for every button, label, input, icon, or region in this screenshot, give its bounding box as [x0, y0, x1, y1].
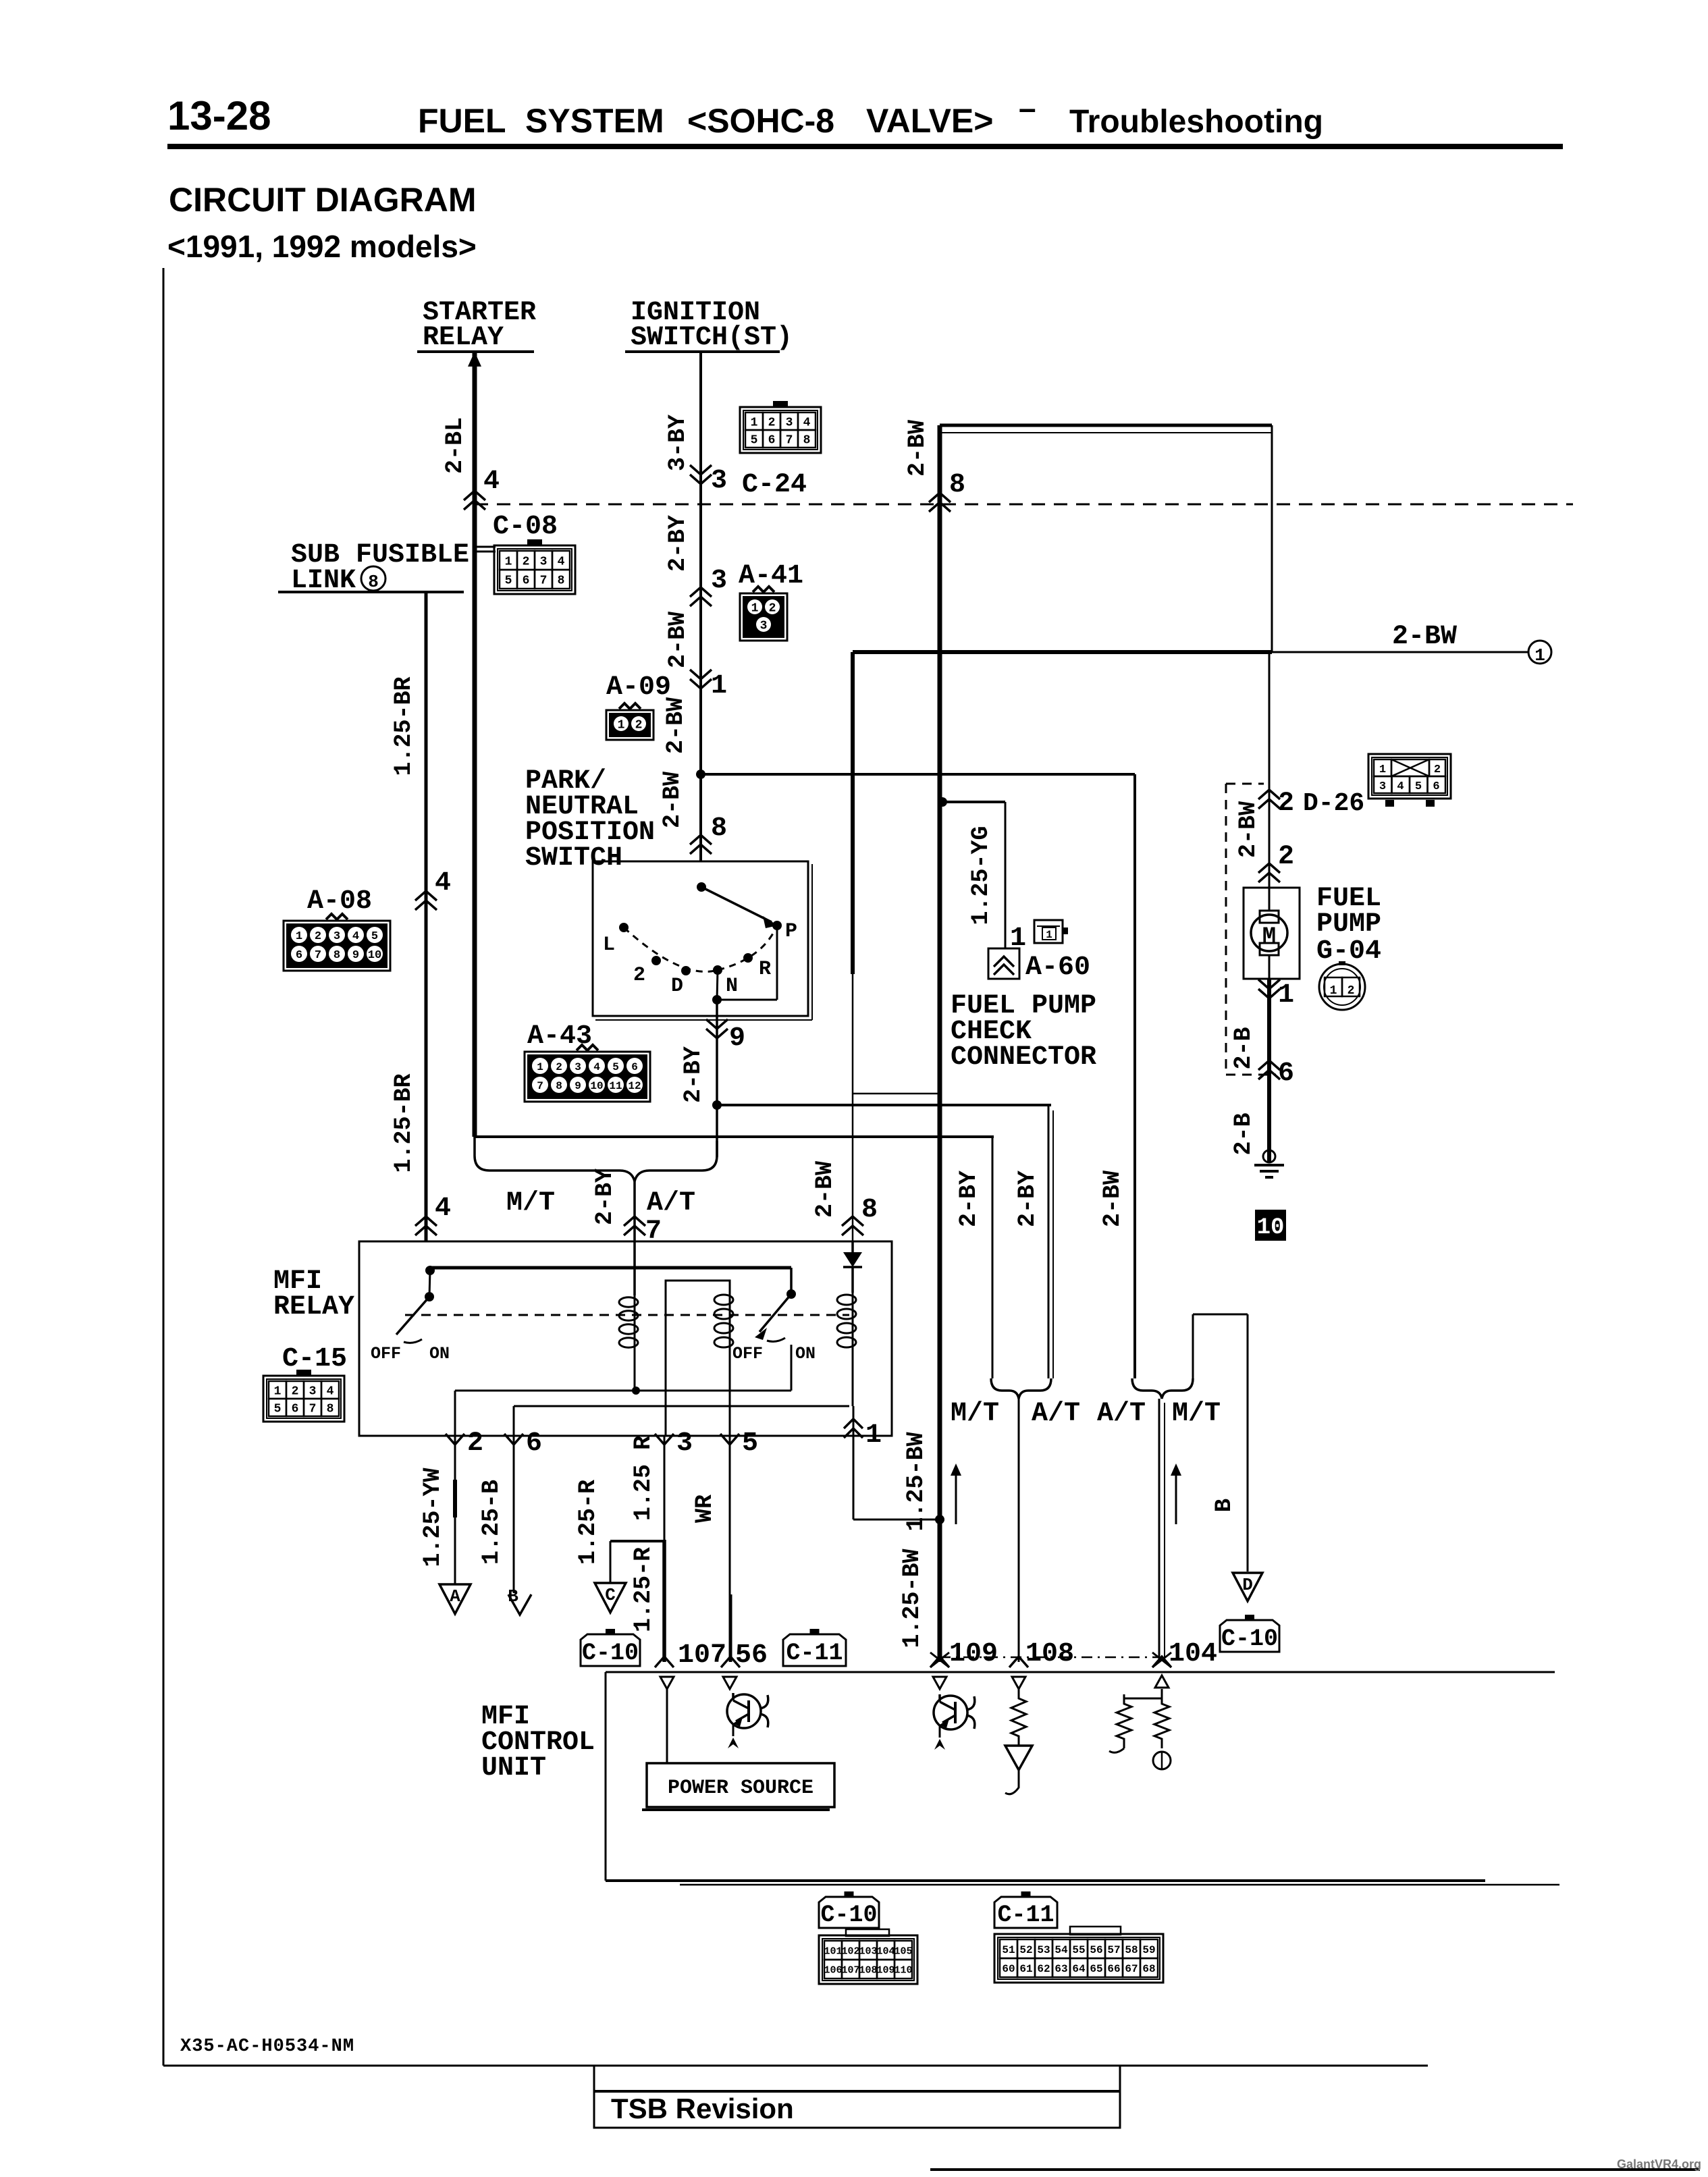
pin 3 chevron at C-24 [690, 475, 712, 484]
contact R [743, 953, 753, 963]
grid location 10 black box [1255, 1210, 1286, 1241]
MFI control unit box top [606, 1671, 1555, 1673]
svg-text:52: 52 [1019, 1944, 1032, 1956]
junction N output [712, 1100, 722, 1110]
connector G-04 [1319, 964, 1365, 1010]
svg-text:108: 108 [1025, 1639, 1074, 1669]
pin 107 chevron [655, 1657, 674, 1667]
svg-text:1.25-BW: 1.25-BW [899, 1549, 926, 1648]
contact D [681, 966, 691, 975]
svg-text:1: 1 [618, 718, 625, 732]
svg-text:5: 5 [1415, 780, 1422, 793]
svg-text:54: 54 [1055, 1944, 1068, 1956]
circle plus under 104 [1153, 1752, 1171, 1769]
pin 9 chevron [706, 1029, 728, 1038]
header rule [167, 144, 1563, 149]
svg-text:6: 6 [526, 1428, 542, 1459]
svg-text:109: 109 [949, 1639, 998, 1669]
svg-text:4: 4 [435, 1193, 451, 1224]
pin 4 chevron at C-08 boundary [464, 491, 485, 500]
pin 3 chevron at A-41 [690, 587, 712, 597]
svg-text:1.25 R: 1.25 R [630, 1436, 657, 1521]
connector C-11 bottom label box [994, 1897, 1057, 1928]
brace M/T A/T upper [475, 1137, 717, 1181]
svg-text:SYSTEM: SYSTEM [525, 102, 664, 140]
svg-text:P: P [785, 920, 797, 943]
contact 2 [651, 956, 661, 965]
svg-text:5: 5 [742, 1428, 758, 1459]
wire 1.25-BR sub fusible link to MFI relay [425, 592, 428, 1241]
svg-text:7: 7 [540, 574, 548, 587]
svg-text:2-BW: 2-BW [1099, 1171, 1126, 1227]
svg-text:1.25-B: 1.25-B [478, 1480, 505, 1565]
relay coil 1 [633, 1241, 636, 1295]
pin 108 chevron [1009, 1657, 1028, 1667]
relay coil1 to pin2 wire [455, 1390, 635, 1392]
wire P to output [776, 927, 778, 1000]
connector A-09 [606, 710, 653, 740]
MFI control unit box bottom [606, 1879, 1485, 1882]
svg-text:3: 3 [333, 930, 340, 943]
svg-text:5: 5 [505, 574, 512, 587]
resistor R-left under 104 [1117, 1694, 1131, 1748]
svg-text:–: – [1019, 90, 1036, 126]
svg-text:106: 106 [824, 1964, 842, 1976]
svg-text:FUEL: FUEL [418, 102, 506, 140]
pin 2 chevron D-26 [1258, 790, 1280, 799]
svg-text:1: 1 [865, 1420, 882, 1451]
pin 2 chevron fuel pump [1258, 863, 1280, 873]
bottom right rule [930, 2168, 1700, 2171]
svg-text:1: 1 [1534, 645, 1545, 666]
svg-text:Troubleshooting: Troubleshooting [1069, 104, 1323, 140]
connector C-11 bottom [994, 1934, 1163, 1983]
wire 2-BL to M/T brace horizontal [475, 1135, 994, 1138]
svg-text:67: 67 [1125, 1963, 1138, 1975]
wire output continues to M/T brace [716, 1105, 718, 1157]
svg-text:2-BW: 2-BW [904, 420, 931, 477]
svg-text:7: 7 [309, 1402, 317, 1416]
pin 7 chevron [624, 1216, 645, 1226]
link 1262 to 1392 [853, 1093, 940, 1095]
svg-text:3: 3 [575, 1061, 581, 1073]
svg-text:2: 2 [1278, 788, 1294, 819]
svg-text:4: 4 [593, 1061, 600, 1073]
wire WR pin5 down [729, 1436, 731, 1594]
svg-text:RELAY: RELAY [273, 1292, 354, 1322]
dashed box fuel pump [1225, 784, 1227, 1075]
svg-text:4: 4 [803, 416, 811, 429]
connector D-26 [1368, 754, 1451, 799]
pin triangle 56 [723, 1677, 737, 1689]
svg-text:66: 66 [1107, 1963, 1120, 1975]
svg-text:A-08: A-08 [307, 886, 372, 917]
svg-text:105: 105 [894, 1945, 912, 1957]
wire 1.25-R branch to terminal C [610, 1540, 664, 1542]
svg-text:107: 107 [678, 1640, 726, 1671]
svg-text:61: 61 [1019, 1963, 1032, 1975]
svg-text:A-09: A-09 [606, 672, 671, 703]
svg-text:C-10: C-10 [582, 1640, 639, 1667]
svg-text:6: 6 [1278, 1058, 1294, 1089]
pin 4 chevron at MFI relay [415, 1216, 437, 1226]
svg-text:C-10: C-10 [1221, 1625, 1278, 1652]
relay pin 5 [720, 1434, 739, 1445]
svg-text:2-BL: 2-BL [442, 417, 469, 474]
svg-text:1: 1 [274, 1385, 282, 1398]
pin 8 chevron top [929, 493, 951, 502]
svg-text:A-60: A-60 [1025, 952, 1090, 983]
pin triangle 108 [1012, 1677, 1025, 1689]
svg-text:6: 6 [523, 574, 530, 587]
svg-text:11: 11 [609, 1080, 622, 1092]
svg-text:D: D [1242, 1575, 1253, 1595]
connector C-10 bottom [819, 1935, 917, 1984]
fuel pump motor box [1244, 888, 1300, 979]
svg-text:1.25-YG: 1.25-YG [967, 826, 994, 925]
svg-text:M/T: M/T [951, 1399, 999, 1429]
relay diode pin8 [851, 1241, 854, 1252]
svg-text:1: 1 [1046, 929, 1052, 941]
svg-text:2-B: 2-B [1230, 1112, 1257, 1155]
svg-text:OFF: OFF [371, 1344, 401, 1364]
svg-text:3: 3 [711, 566, 727, 596]
svg-text:7: 7 [786, 433, 793, 447]
svg-text:2: 2 [1347, 984, 1355, 998]
svg-text:2: 2 [315, 930, 321, 943]
fuel pump motor [1269, 888, 1271, 911]
wire 104 down double [1158, 1399, 1160, 1662]
svg-text:ON: ON [795, 1344, 816, 1364]
relay coil 3 [837, 1295, 856, 1305]
svg-text:3-BY: 3-BY [664, 414, 691, 471]
svg-text:2: 2 [467, 1428, 483, 1459]
wire 2-BL starter relay to MFI relay [473, 352, 477, 1137]
terminal C [595, 1583, 626, 1613]
terminal circle 1 [1528, 641, 1551, 664]
wire stub to C-08 [475, 546, 496, 548]
svg-text:1: 1 [751, 601, 759, 615]
svg-text:2-BW: 2-BW [1235, 801, 1262, 858]
svg-text:6: 6 [296, 949, 302, 962]
pin 104 chevron [1152, 1657, 1171, 1667]
connector A-08 [284, 921, 390, 971]
svg-text:109: 109 [876, 1964, 895, 1976]
pin 109 chevron [930, 1657, 949, 1667]
svg-text:2: 2 [768, 416, 776, 429]
terminal B [508, 1594, 531, 1615]
relay right switch [759, 1294, 791, 1332]
svg-text:2-BY: 2-BY [1014, 1171, 1041, 1227]
svg-text:1: 1 [1330, 984, 1337, 998]
svg-text:UNIT: UNIT [481, 1753, 546, 1783]
svg-text:7: 7 [537, 1080, 543, 1092]
svg-text:4: 4 [558, 555, 565, 568]
wire to power source [666, 1689, 668, 1763]
svg-text:103: 103 [859, 1945, 877, 1957]
svg-text:6: 6 [631, 1061, 638, 1073]
svg-text:4: 4 [483, 466, 500, 497]
relay coil 2 [714, 1295, 733, 1305]
wire 2-BW right vertical to brace [1133, 774, 1136, 1378]
junction ignition to fuel pump feed [696, 770, 705, 779]
svg-text:9: 9 [352, 949, 359, 962]
connector C-15 [263, 1376, 344, 1422]
current arrow up at 109 [955, 1472, 957, 1524]
svg-text:110: 110 [894, 1964, 912, 1976]
relay dashed link [405, 1314, 849, 1316]
svg-text:2: 2 [635, 718, 643, 732]
svg-text:PUMP: PUMP [1316, 909, 1381, 940]
svg-text:2: 2 [292, 1385, 299, 1398]
svg-text:2-BW: 2-BW [664, 612, 691, 668]
svg-text:WR: WR [691, 1495, 718, 1523]
pin triangle 107 [660, 1677, 674, 1689]
svg-text:8: 8 [803, 433, 811, 447]
svg-text:2-BY: 2-BY [955, 1171, 982, 1227]
brace M/T A/T right-1 [991, 1378, 1051, 1399]
svg-text:51: 51 [1002, 1944, 1015, 1956]
svg-text:59: 59 [1142, 1944, 1155, 1956]
svg-text:8: 8 [368, 572, 379, 592]
wire 1.25-YG branch [942, 801, 1005, 803]
terminal A [439, 1584, 471, 1614]
svg-text:X35-AC-H0534-NM: X35-AC-H0534-NM [180, 2037, 354, 2057]
svg-text:D-26: D-26 [1303, 789, 1364, 818]
pin 6 chevron [1258, 1060, 1280, 1070]
svg-text:N: N [726, 975, 738, 998]
contact N [713, 965, 722, 975]
svg-text:1: 1 [751, 416, 758, 429]
svg-text:1.25-BW: 1.25-BW [903, 1432, 930, 1531]
connector A-60 chevron box [988, 948, 1019, 979]
svg-text:C: C [605, 1585, 616, 1605]
switch arm to P [701, 887, 772, 922]
relay pin6 bus [514, 1405, 849, 1407]
resistor under 108 [1011, 1689, 1026, 1746]
ground squiggle under 108 [1005, 1770, 1019, 1794]
connector C-10 label box (left) [581, 1634, 640, 1666]
svg-text:7: 7 [315, 949, 321, 962]
svg-text:10: 10 [368, 949, 381, 962]
svg-text:<SOHC-8: <SOHC-8 [687, 102, 834, 140]
relay pin 1 [844, 1419, 863, 1428]
pin 8 chevron at park/neutral switch [690, 835, 712, 844]
connector A-41 [740, 593, 787, 641]
svg-text:CIRCUIT DIAGRAM: CIRCUIT DIAGRAM [169, 181, 477, 219]
footer rule [163, 2065, 1428, 2067]
svg-text:3: 3 [676, 1428, 693, 1459]
svg-text:57: 57 [1107, 1944, 1120, 1956]
svg-text:104: 104 [1169, 1639, 1217, 1669]
svg-text:8: 8 [861, 1195, 878, 1225]
svg-text:D: D [671, 975, 683, 998]
wire 2-BY from brace to MFI relay pin 7 [633, 1180, 636, 1241]
wire 1.25-YW to terminal A [454, 1436, 456, 1584]
svg-text:1.25-BR: 1.25-BR [390, 676, 417, 776]
wire 1.25-B to terminal B [513, 1436, 515, 1593]
relay pin 6 [504, 1434, 523, 1445]
wire 108 down [1018, 1399, 1020, 1662]
svg-text:2: 2 [1278, 842, 1294, 872]
svg-text:56: 56 [1090, 1944, 1102, 1956]
svg-text:2-BY: 2-BY [664, 515, 691, 572]
svg-text:8: 8 [949, 470, 965, 500]
svg-text:9: 9 [729, 1023, 745, 1054]
svg-text:C-11: C-11 [786, 1640, 843, 1667]
svg-text:4: 4 [327, 1385, 334, 1398]
svg-text:<1991, 1992 models>: <1991, 1992 models> [167, 229, 477, 264]
svg-text:C-24: C-24 [742, 470, 807, 500]
svg-text:C-11: C-11 [997, 1902, 1054, 1929]
svg-text:2-BW: 2-BW [659, 772, 686, 828]
power source box [647, 1763, 834, 1807]
brace A/T M/T right-2 [1132, 1378, 1193, 1399]
svg-text:POWER SOURCE: POWER SOURCE [668, 1777, 813, 1800]
svg-text:63: 63 [1055, 1963, 1067, 1975]
svg-text:107: 107 [841, 1964, 859, 1976]
svg-text:3: 3 [711, 466, 727, 496]
wire bus 966 horizontal [853, 650, 1272, 654]
svg-text:1.25-R: 1.25-R [630, 1547, 657, 1632]
svg-text:55: 55 [1072, 1944, 1085, 1956]
svg-text:58: 58 [1125, 1944, 1138, 1956]
svg-text:8: 8 [711, 813, 727, 844]
relay left switch [429, 1270, 430, 1297]
svg-text:L: L [603, 934, 615, 957]
wire switch output down [716, 1000, 718, 1105]
svg-text:64: 64 [1072, 1963, 1086, 1975]
ground symbol fuel pump [1263, 1150, 1275, 1162]
svg-text:ON: ON [429, 1344, 450, 1364]
svg-text:5: 5 [274, 1402, 282, 1416]
svg-text:68: 68 [1142, 1963, 1155, 1975]
svg-text:104: 104 [876, 1945, 895, 1957]
svg-text:B: B [1212, 1499, 1237, 1512]
wire A/T 2-BY double vertical [1048, 1105, 1050, 1378]
svg-text:VALVE>: VALVE> [866, 102, 993, 140]
transistor Q2 [934, 1696, 967, 1729]
svg-text:2: 2 [1434, 763, 1441, 776]
svg-text:2-BW: 2-BW [811, 1161, 838, 1218]
svg-text:3: 3 [1379, 780, 1386, 793]
svg-text:C-08: C-08 [493, 512, 558, 542]
TSB revision box [594, 2066, 1120, 2128]
svg-text:1.25-R: 1.25-R [575, 1480, 602, 1565]
svg-text:8: 8 [556, 1080, 562, 1092]
MFI relay box [359, 1241, 892, 1436]
switch common contact [697, 882, 706, 892]
pin triangle 104 up [1155, 1675, 1169, 1688]
svg-text:A: A [450, 1586, 460, 1607]
svg-text:1: 1 [505, 555, 512, 568]
terminal D [1233, 1573, 1262, 1601]
svg-text:2-BY: 2-BY [680, 1046, 707, 1103]
svg-text:2-BY: 2-BY [591, 1168, 618, 1225]
wire output to A/T branch horizontal [717, 1104, 1051, 1106]
svg-text:OFF: OFF [732, 1344, 763, 1364]
svg-text:1.25-BR: 1.25-BR [390, 1073, 417, 1173]
svg-text:10: 10 [1257, 1215, 1285, 1241]
diode triangle under 108 [1005, 1746, 1032, 1770]
pin 104 split [1161, 1689, 1163, 1698]
svg-text:8: 8 [333, 949, 340, 962]
svg-text:SWITCH(ST): SWITCH(ST) [631, 323, 793, 353]
current arrow up at 104 [1175, 1472, 1177, 1524]
svg-text:6: 6 [1433, 780, 1439, 793]
svg-text:SWITCH: SWITCH [525, 843, 622, 874]
svg-text:TSB Revision: TSB Revision [611, 2093, 794, 2124]
svg-text:5: 5 [751, 433, 758, 447]
svg-text:3: 3 [540, 555, 548, 568]
pin 1 chevron at A-09 [690, 679, 712, 689]
pin 4 chevron on 1.25-BR [415, 891, 437, 901]
wire 2-BW branch to MFI relay pin 8 [851, 652, 855, 974]
connector A-43 [525, 1052, 650, 1102]
svg-text:62: 62 [1037, 1963, 1050, 1975]
pin 1 chevron fuel pump out [1258, 989, 1280, 998]
wire 2-BW main vertical (thick) [938, 425, 942, 1662]
junction dot A-60 branch [938, 797, 947, 807]
contact L [619, 923, 629, 932]
wire 2-BW top loop [940, 424, 1272, 427]
connector C-11 label box [783, 1634, 846, 1666]
connector icon single pin [1034, 920, 1063, 943]
svg-text:GalantVR4.org: GalantVR4.org [1617, 2157, 1701, 2171]
svg-text:1.25-YW: 1.25-YW [419, 1468, 446, 1567]
contact P [772, 921, 782, 930]
wire ignition to A/T-M/T 2-BW horizontal [701, 773, 1135, 776]
left page border [163, 268, 165, 2066]
svg-text:12: 12 [628, 1080, 641, 1092]
svg-text:M/T: M/T [1172, 1399, 1221, 1429]
svg-text:1: 1 [711, 671, 727, 701]
svg-text:R: R [759, 958, 771, 981]
svg-text:53: 53 [1037, 1944, 1050, 1956]
svg-text:108: 108 [859, 1964, 877, 1976]
park/neutral position switch box [593, 861, 808, 1016]
pin triangle 109 [933, 1677, 946, 1689]
MFI control unit box left [605, 1672, 607, 1881]
svg-text:60: 60 [1002, 1963, 1015, 1975]
connector C-24 [740, 407, 821, 453]
dashed boundary line [475, 504, 1573, 506]
pin 56 chevron [721, 1657, 740, 1667]
wire 2-B fuel pump ground [1267, 979, 1271, 1163]
svg-text:3: 3 [786, 416, 793, 429]
wire B from D terminal to M/T [1192, 1314, 1194, 1378]
connector C-10 bottom label box [819, 1897, 879, 1928]
contact arc dashed [624, 928, 718, 971]
relay internal bus [425, 1266, 435, 1275]
svg-text:5: 5 [371, 930, 378, 943]
relay pin 3 [655, 1434, 674, 1445]
svg-text:56: 56 [735, 1640, 768, 1671]
resistor R-right under 104 [1154, 1694, 1169, 1748]
svg-text:2-B: 2-B [1230, 1027, 1257, 1069]
svg-text:2: 2 [769, 601, 776, 615]
svg-text:4: 4 [1397, 780, 1404, 793]
svg-text:1: 1 [1278, 980, 1294, 1011]
connector C-08 [494, 545, 575, 594]
dash-dot line above MFI control unit [940, 1657, 1159, 1659]
connector C-10 label box (right) [1220, 1620, 1279, 1652]
svg-text:3: 3 [309, 1385, 317, 1398]
svg-text:RELAY: RELAY [423, 323, 504, 353]
svg-text:101: 101 [824, 1945, 842, 1957]
relay pin 2 [446, 1434, 464, 1445]
svg-text:G-04: G-04 [1316, 936, 1381, 967]
